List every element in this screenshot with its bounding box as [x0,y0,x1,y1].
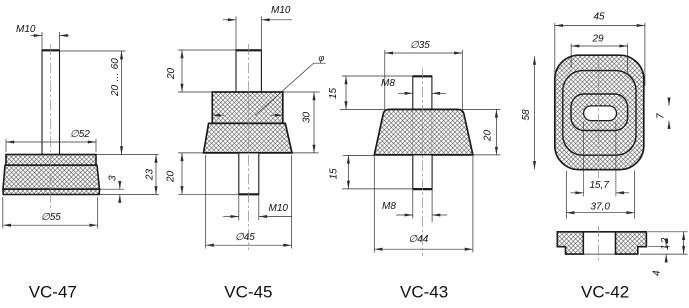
svg-text:M10: M10 [271,5,291,16]
svg-text:M8: M8 [381,78,395,89]
svg-text:M10: M10 [269,203,289,214]
svg-text:20 … 60: 20 … 60 [110,58,121,97]
svg-text:4: 4 [652,270,663,276]
svg-text:20: 20 [483,129,494,142]
svg-text:12: 12 [660,236,671,250]
svg-text:∅44: ∅44 [409,234,429,245]
svg-text:7: 7 [656,113,667,119]
svg-text:M8: M8 [382,201,396,212]
svg-text:15: 15 [328,87,339,99]
svg-text:∅45: ∅45 [235,232,255,243]
svg-text:20: 20 [166,67,177,80]
svg-text:∅35: ∅35 [410,40,430,51]
svg-text:VC-47: VC-47 [29,283,77,302]
svg-text:15,7: 15,7 [590,180,610,191]
svg-text:∅55: ∅55 [41,212,61,223]
svg-text:37,0: 37,0 [591,202,611,213]
svg-text:VC-42: VC-42 [581,283,629,302]
svg-text:VC-43: VC-43 [400,283,448,302]
svg-text:∅52: ∅52 [70,129,90,140]
svg-text:23: 23 [145,168,156,181]
svg-text:15: 15 [329,168,340,180]
svg-text:58: 58 [521,109,532,121]
svg-text:3: 3 [108,175,119,181]
svg-text:30: 30 [302,111,313,123]
svg-text:VC-45: VC-45 [224,283,272,302]
svg-text:29: 29 [592,34,605,45]
svg-text:φ: φ [319,53,325,63]
svg-text:M10: M10 [16,24,36,35]
svg-text:20: 20 [166,170,177,183]
svg-text:45: 45 [594,12,606,23]
